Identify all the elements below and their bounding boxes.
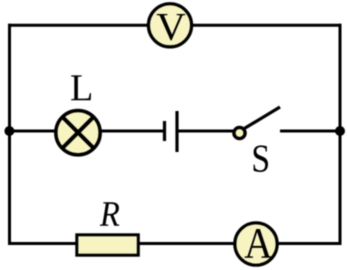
wire: middle branch from left node to lamp (10, 130, 59, 133)
label S (254, 145, 268, 172)
switch S: pivot circle (234, 127, 245, 138)
wire: lamp to battery short plate (98, 130, 164, 133)
wire: switch right stub to right node (280, 130, 340, 133)
wire: left vertical (8, 24, 11, 245)
node: left junction dot (4, 126, 14, 136)
wire: bottom horizontal left of resistor (10, 242, 78, 245)
lamp L (56, 111, 100, 155)
label L (71, 75, 91, 100)
wire: battery long plate to switch pivot (177, 130, 236, 133)
node: right junction dot (335, 126, 345, 136)
voltmeter V (148, 4, 191, 47)
battery: short plate (negative) (163, 121, 166, 141)
wire: top horizontal left of voltmeter (8, 24, 150, 27)
wire: resistor to ammeter (138, 242, 237, 245)
resistor R (77, 235, 139, 255)
ammeter A (235, 223, 277, 265)
wire: ammeter to bottom-right corner (276, 242, 342, 245)
switch S: lever arm (241, 107, 280, 131)
battery: long plate (positive) (175, 111, 178, 152)
wire: top horizontal right of voltmeter (190, 24, 342, 27)
label R (100, 202, 120, 225)
wire: right vertical (339, 24, 342, 245)
